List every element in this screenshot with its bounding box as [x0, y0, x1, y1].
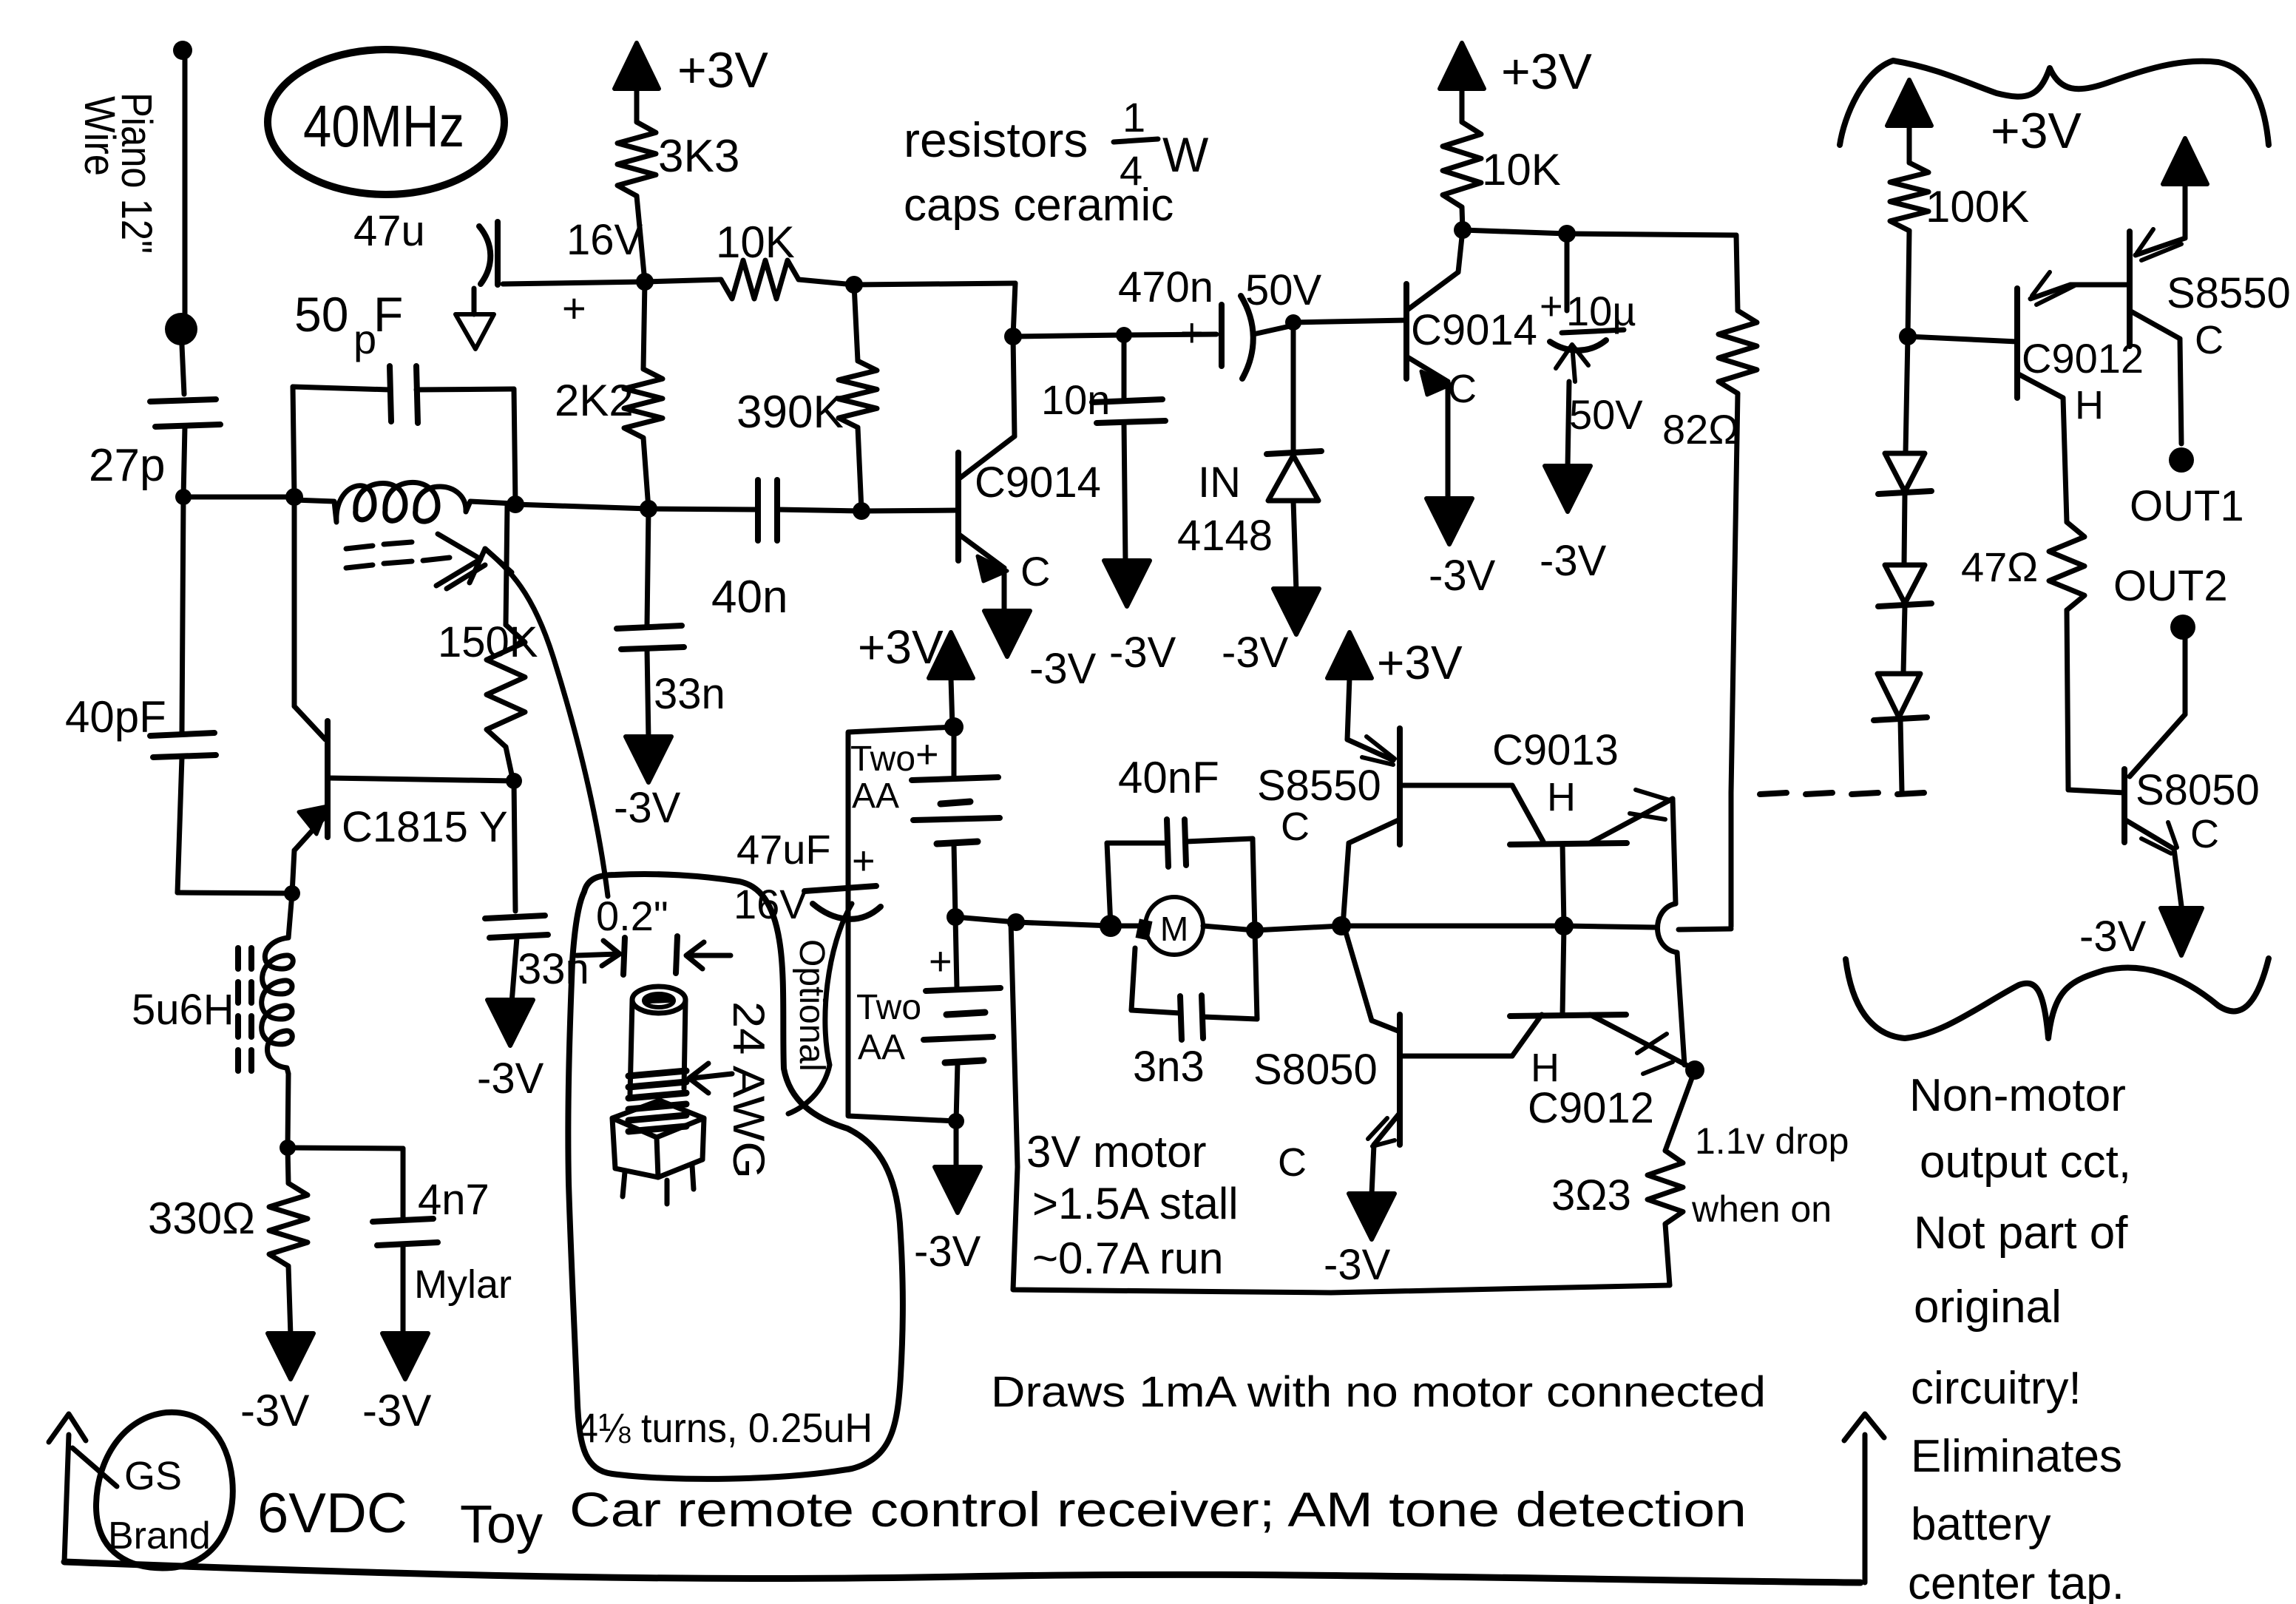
svg-text:S8550: S8550 [1257, 762, 1381, 810]
svg-text:-3V: -3V [240, 1386, 309, 1435]
svg-text:H: H [1547, 775, 1576, 819]
svg-text:470n: 470n [1118, 263, 1213, 311]
svg-text:OUT2: OUT2 [2113, 562, 2228, 610]
svg-text:AA: AA [858, 1028, 905, 1067]
svg-text:4⅛ turns, 0.25uH: 4⅛ turns, 0.25uH [577, 1404, 873, 1451]
svg-text:10K: 10K [1482, 145, 1561, 194]
svg-text:Mylar: Mylar [414, 1262, 512, 1307]
svg-text:C1815 Y: C1815 Y [342, 803, 508, 851]
svg-text:C9013: C9013 [1492, 726, 1619, 774]
svg-text:center tap.: center tap. [1908, 1558, 2124, 1604]
svg-text:C: C [1278, 1140, 1307, 1185]
svg-text:3Ω3: 3Ω3 [1551, 1171, 1631, 1219]
svg-text:1: 1 [1122, 94, 1145, 141]
svg-text:OUT1: OUT1 [2130, 482, 2244, 530]
svg-text:4n7: 4n7 [418, 1176, 490, 1224]
svg-text:original: original [1914, 1282, 2062, 1333]
svg-text:+: + [929, 939, 952, 984]
svg-text:3K3: 3K3 [658, 131, 739, 182]
svg-text:40MHz: 40MHz [303, 93, 464, 159]
svg-text:H: H [2075, 383, 2104, 427]
svg-text:47uF: 47uF [736, 826, 831, 873]
svg-text:33n: 33n [518, 945, 589, 993]
svg-text:24 AWG: 24 AWG [724, 1001, 773, 1179]
svg-text:Eliminates: Eliminates [1911, 1431, 2122, 1482]
svg-text:10K: 10K [716, 217, 795, 267]
svg-text:-3V: -3V [1109, 629, 1176, 677]
svg-text:-3V: -3V [614, 784, 681, 832]
svg-text:40pF: 40pF [65, 692, 166, 742]
svg-text:C9012: C9012 [1528, 1084, 1654, 1132]
svg-text:Two: Two [850, 740, 915, 779]
svg-text:circuitry!: circuitry! [1911, 1363, 2082, 1414]
svg-text:3n3: 3n3 [1133, 1043, 1205, 1091]
svg-text:-3V: -3V [1222, 629, 1289, 677]
svg-text:C: C [2195, 318, 2224, 362]
svg-text:GS: GS [124, 1454, 182, 1498]
svg-text:H: H [1531, 1046, 1560, 1090]
svg-text:+3V: +3V [1377, 636, 1463, 689]
svg-text:150K: 150K [438, 618, 538, 666]
svg-text:M: M [1160, 910, 1188, 948]
svg-text:16V: 16V [566, 216, 643, 264]
svg-text:battery: battery [1911, 1499, 2051, 1550]
svg-text:82Ω: 82Ω [1662, 406, 1739, 453]
svg-text:1.1v drop: 1.1v drop [1695, 1120, 1849, 1162]
svg-text:390K: 390K [736, 387, 844, 438]
svg-text:10µ: 10µ [1566, 288, 1636, 334]
svg-text:+3V: +3V [858, 620, 944, 674]
svg-text:50V: 50V [1569, 391, 1643, 438]
svg-text:-3V: -3V [914, 1228, 981, 1276]
svg-text:caps ceramic: caps ceramic [904, 180, 1174, 231]
svg-text:-3V: -3V [1324, 1241, 1391, 1289]
svg-text:Wire: Wire [75, 96, 123, 176]
svg-text:0.2": 0.2" [596, 893, 668, 939]
svg-text:C: C [1281, 805, 1310, 849]
svg-text:W: W [1162, 127, 1209, 182]
svg-text:+3V: +3V [1991, 103, 2082, 159]
svg-text:C: C [1448, 367, 1477, 411]
svg-text:100K: 100K [1926, 182, 2029, 231]
svg-text:50: 50 [294, 287, 348, 342]
svg-text:F: F [373, 287, 403, 342]
svg-text:IN: IN [1198, 458, 1241, 507]
svg-text:resistors: resistors [904, 112, 1088, 167]
svg-text:33n: 33n [654, 670, 725, 718]
svg-text:~0.7A run: ~0.7A run [1032, 1234, 1224, 1283]
svg-text:5u6H: 5u6H [132, 986, 234, 1034]
svg-text:+: + [1180, 311, 1204, 355]
svg-text:C: C [2190, 812, 2219, 856]
svg-text:50V: 50V [1245, 266, 1322, 314]
svg-text:-3V: -3V [2079, 913, 2147, 961]
svg-text:+3V: +3V [677, 42, 769, 98]
svg-text:-3V: -3V [362, 1386, 431, 1435]
svg-text:4148: 4148 [1177, 512, 1273, 560]
svg-text:C9014: C9014 [1411, 306, 1537, 354]
svg-text:47u: 47u [353, 207, 425, 255]
svg-text:Brand: Brand [108, 1515, 211, 1557]
svg-text:+: + [1540, 284, 1563, 328]
svg-text:when on: when on [1691, 1188, 1832, 1230]
svg-text:-3V: -3V [1029, 645, 1097, 693]
svg-text:>1.5A stall: >1.5A stall [1032, 1179, 1239, 1228]
svg-text:+: + [562, 285, 586, 331]
svg-text:-3V: -3V [477, 1055, 544, 1103]
svg-text:C9014: C9014 [975, 458, 1101, 507]
svg-text:S8050: S8050 [1253, 1046, 1378, 1094]
svg-text:6VDC: 6VDC [257, 1482, 407, 1545]
svg-text:+: + [852, 839, 876, 883]
svg-text:3V motor: 3V motor [1026, 1127, 1206, 1177]
svg-text:2K2: 2K2 [555, 376, 634, 425]
svg-text:Draws 1mA with no motor connec: Draws 1mA with no motor connected [991, 1368, 1766, 1416]
svg-text:47Ω: 47Ω [1961, 544, 2038, 590]
svg-text:330Ω: 330Ω [148, 1194, 255, 1243]
svg-text:40n: 40n [711, 572, 788, 623]
svg-text:+: + [915, 732, 939, 776]
svg-text:-3V: -3V [1429, 552, 1496, 600]
svg-text:C: C [1020, 548, 1050, 595]
svg-text:Non-motor: Non-motor [1909, 1070, 2126, 1121]
svg-text:+3V: +3V [1501, 44, 1593, 100]
svg-text:S8050: S8050 [2136, 766, 2260, 814]
svg-text:output cct,: output cct, [1920, 1137, 2131, 1188]
svg-text:Optional: Optional [792, 939, 831, 1072]
svg-text:Toy: Toy [460, 1495, 543, 1554]
svg-text:Car remote control receiver; A: Car remote control receiver; AM tone det… [569, 1482, 1747, 1537]
svg-text:AA: AA [852, 776, 899, 816]
svg-text:27p: 27p [89, 440, 165, 491]
svg-text:S8550: S8550 [2167, 269, 2291, 317]
svg-text:-3V: -3V [1540, 537, 1607, 585]
svg-text:Two: Two [856, 988, 921, 1027]
svg-text:Not part of: Not part of [1914, 1208, 2128, 1259]
svg-text:C9012: C9012 [2022, 335, 2144, 382]
svg-text:40nF: 40nF [1118, 753, 1219, 802]
